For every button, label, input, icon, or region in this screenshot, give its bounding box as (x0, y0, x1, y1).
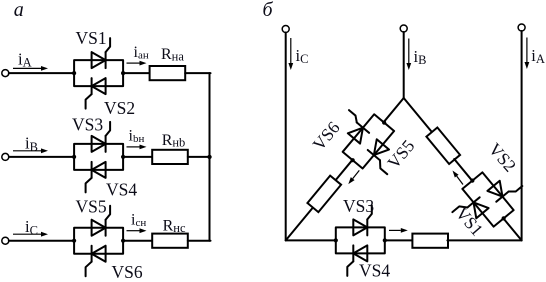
wire phase C input (9, 240, 74, 242)
wire VS5 pair to Rнс (123, 240, 152, 242)
wire corner C to VS3/VS4 pair (286, 239, 336, 241)
wire phase B feeder (403, 32, 405, 98)
svg-text:VS5: VS5 (76, 197, 107, 217)
wire resistor to corner C (286, 208, 313, 240)
terminal phase A input (2, 70, 9, 77)
resistor Rнb (152, 150, 188, 164)
wire phase A feeder (521, 31, 523, 240)
current arrow iсн (127, 228, 147, 233)
junction dot left (72, 155, 76, 159)
terminal phase C input (2, 237, 9, 244)
wire apex to resistor AB (404, 98, 433, 133)
wire Rна to bus (185, 72, 210, 74)
wire phase C feeder (285, 33, 287, 241)
terminal phase B input (2, 153, 9, 160)
thyristor pair VS6/VS5 (324, 99, 412, 185)
junction dot left (350, 157, 356, 163)
current arrow ibн (127, 145, 147, 150)
thyristor pair VS5/VS6 (72, 206, 125, 277)
current arrow iA (б) (525, 38, 530, 70)
wire resistor BC to corner A (447, 239, 521, 241)
svg-text:Rнb: Rнb (162, 132, 186, 149)
current arrow phase CA branch (348, 170, 359, 184)
junction dot left (72, 71, 76, 75)
wire VS3/VS4 pair to resistor BC (385, 239, 413, 241)
resistor load AB (426, 128, 460, 164)
wire Rнс to bus (188, 240, 211, 242)
thyristor pair VS1/VS2 (72, 38, 125, 109)
svg-text:Rна: Rна (161, 46, 184, 63)
wire resistor AB to VS2/VS1 pair (454, 159, 472, 181)
thyristor VS5 (92, 206, 111, 236)
thyristor VS1 (452, 193, 488, 228)
current arrow iC (13, 232, 48, 237)
current arrow phase BC branch (389, 228, 408, 233)
resistor load CA (307, 176, 341, 212)
svg-text:iан: iан (134, 44, 149, 61)
current arrow phase AB branch (453, 171, 464, 185)
svg-text:VS6: VS6 (308, 117, 343, 154)
junction dot right (383, 238, 387, 242)
junction dot right (121, 239, 125, 243)
wire VS6/VS5 pair to resistor (334, 160, 352, 182)
svg-text:iB: iB (414, 47, 427, 67)
junction dot right (501, 215, 507, 221)
resistor load BC (412, 234, 448, 248)
svg-text:VS4: VS4 (359, 261, 390, 281)
junction dot right (121, 155, 125, 159)
thyristor VS2 (487, 172, 522, 205)
current arrow iA (13, 66, 48, 71)
thyristor VS3 (353, 205, 372, 235)
thyristor VS6 (86, 246, 106, 277)
current arrow iан (127, 61, 147, 66)
svg-text:VS4: VS4 (106, 180, 137, 200)
thyristor VS2 (86, 78, 106, 109)
thyristor pair VS3/VS4 (334, 205, 387, 276)
current arrow iB (б) (406, 39, 411, 71)
thyristor pair VS3/VS4 (72, 122, 125, 193)
svg-text:iA: iA (531, 46, 545, 66)
svg-text:а: а (14, 0, 24, 21)
junction dot right (381, 120, 387, 126)
wire VS2/VS1 pair to corner A (504, 219, 522, 241)
current arrow iB (13, 148, 48, 153)
svg-text:VS1: VS1 (76, 28, 107, 48)
junction node bus/phase B (207, 155, 211, 159)
wire phase B input (9, 156, 74, 158)
wire VS1 pair to Rна (123, 72, 150, 74)
svg-text:VS2: VS2 (485, 139, 521, 176)
resistor Rнс (152, 234, 188, 248)
resistor Rна (150, 66, 186, 80)
terminal phase C (б) (282, 26, 289, 33)
terminal phase A (б) (518, 24, 525, 31)
svg-text:VS3: VS3 (343, 196, 374, 216)
wire Rнb to bus (188, 156, 211, 158)
wire phase A input (9, 72, 74, 74)
wire VS3 pair to Rнb (123, 156, 152, 158)
svg-text:ibн: ibн (129, 128, 145, 145)
svg-text:VS6: VS6 (112, 262, 143, 282)
svg-text:VS5: VS5 (383, 136, 418, 173)
current arrow iC (б) (288, 38, 293, 70)
svg-text:VS2: VS2 (104, 98, 135, 118)
svg-text:б: б (263, 0, 274, 21)
svg-text:iC: iC (296, 46, 309, 66)
thyristor VS1 (92, 38, 111, 68)
thyristor VS6 (337, 110, 372, 143)
thyristor pair VS2/VS1 (444, 157, 532, 243)
thyristor VS4 (86, 162, 106, 193)
svg-text:VS3: VS3 (72, 115, 103, 135)
wire output bus (209, 73, 211, 241)
terminal phase B (б) (400, 25, 407, 32)
thyristor VS5 (364, 139, 400, 174)
junction dot left (72, 239, 76, 243)
junction dot right (121, 71, 125, 75)
thyristor VS3 (92, 122, 111, 152)
svg-text:iсн: iсн (131, 212, 146, 229)
svg-text:Rнс: Rнс (163, 218, 186, 235)
thyristor VS4 (347, 245, 367, 276)
wire apex to VS6/VS5 pair (384, 98, 404, 122)
svg-text:iA: iA (18, 49, 32, 69)
junction dot left (334, 238, 338, 242)
junction dot left (469, 178, 475, 184)
